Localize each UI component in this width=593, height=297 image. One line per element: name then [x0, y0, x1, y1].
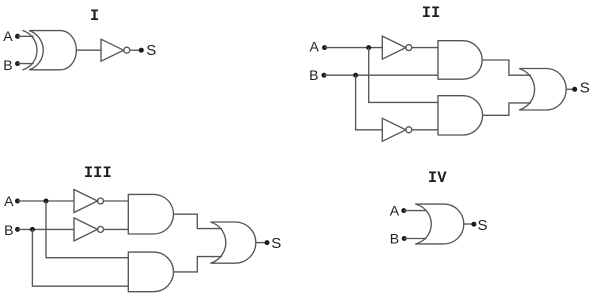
- wire AND1 to OR (circuit II): [482, 60, 531, 75]
- svg-text:III: III: [84, 164, 112, 182]
- output node S (circuit IV): [471, 222, 476, 227]
- node A (circuit IV): [401, 208, 406, 213]
- node B (circuit I): [15, 61, 20, 66]
- svg-text:II: II: [422, 4, 441, 22]
- AND gate 3 (circuit III): [128, 194, 173, 234]
- wire A to NOT3 (circuit III): [18, 200, 75, 202]
- svg-text:A: A: [390, 202, 400, 218]
- junction on A wire (circuit III): [44, 199, 49, 204]
- OR gate (circuit IV): [415, 204, 464, 244]
- svg-text:IV: IV: [428, 169, 447, 187]
- node A (circuit I): [15, 34, 20, 39]
- svg-text:S: S: [146, 42, 156, 59]
- svg-text:B: B: [390, 231, 399, 247]
- wire A to NOT1 (circuit II): [325, 47, 383, 49]
- AND gate 1 (circuit II): [438, 41, 482, 79]
- wire NOT3 to AND3 (circuit III): [104, 200, 129, 202]
- svg-text:S: S: [478, 217, 488, 234]
- AND gate 4 (circuit III): [128, 252, 173, 292]
- wire AND3 to OR (circuit III): [174, 214, 223, 228]
- wire A to XOR (circuit I): [18, 35, 34, 37]
- wire B to XOR (circuit I): [18, 63, 34, 65]
- wire NOT1 to AND1 (circuit II): [412, 47, 438, 49]
- wire XOR output to NOT (circuit I): [76, 49, 101, 51]
- svg-text:I: I: [90, 7, 99, 25]
- NOT gate (circuit I): [101, 39, 130, 61]
- wire OR output to S (circuit III): [256, 242, 267, 244]
- wire NOT2 to AND2 (circuit II): [412, 129, 438, 131]
- svg-text:B: B: [3, 57, 12, 73]
- junction on B wire (circuit II): [353, 73, 358, 78]
- NOT gate 3 (circuit III): [74, 190, 104, 213]
- node B (circuit II): [322, 73, 327, 78]
- output node S (circuit II): [572, 87, 577, 92]
- wire B to OR (circuit IV): [404, 238, 426, 240]
- output node S (circuit I): [139, 48, 144, 53]
- junction on B wire (circuit III): [30, 227, 35, 232]
- wire AND2 to OR (circuit II): [482, 103, 531, 115]
- node B (circuit IV): [402, 236, 407, 241]
- wire B branch down to NOT2 (circuit II): [356, 75, 383, 130]
- svg-text:B: B: [4, 222, 13, 238]
- wire OR output to S (circuit IV): [464, 223, 474, 225]
- NOT gate 2 (circuit II): [382, 118, 412, 141]
- wire B to NOT4 (circuit III): [18, 228, 75, 230]
- XOR gate (circuit I): [23, 30, 77, 70]
- OR gate (circuit III): [211, 222, 256, 263]
- svg-text:A: A: [3, 28, 13, 44]
- node B (circuit III): [15, 227, 20, 232]
- svg-text:A: A: [4, 193, 14, 209]
- svg-text:A: A: [310, 39, 320, 55]
- wire NOT output to S (circuit I): [130, 49, 142, 51]
- svg-text:B: B: [309, 67, 318, 83]
- output node S (circuit III): [265, 240, 270, 245]
- wire A branch down to AND4 (circuit III): [46, 201, 128, 258]
- wire NOT4 to AND3 (circuit III): [104, 228, 129, 230]
- NOT gate 1 (circuit II): [382, 36, 412, 59]
- NOT gate 4 (circuit III): [74, 218, 104, 241]
- svg-text:S: S: [580, 80, 590, 97]
- wire OR output to S (circuit II): [566, 88, 575, 90]
- wire A branch down to AND2 (circuit II): [369, 48, 438, 103]
- wire B to AND1 (circuit II): [324, 74, 438, 76]
- wire B branch down to AND4 (circuit III): [32, 229, 128, 286]
- OR gate (circuit II): [519, 69, 566, 111]
- AND gate 2 (circuit II): [438, 96, 483, 135]
- wire AND4 to OR (circuit III): [174, 257, 223, 272]
- svg-text:S: S: [271, 235, 281, 252]
- node A (circuit III): [15, 199, 20, 204]
- node A (circuit II): [322, 45, 327, 50]
- wire A to OR (circuit IV): [404, 210, 427, 212]
- junction on A wire (circuit II): [366, 45, 371, 50]
